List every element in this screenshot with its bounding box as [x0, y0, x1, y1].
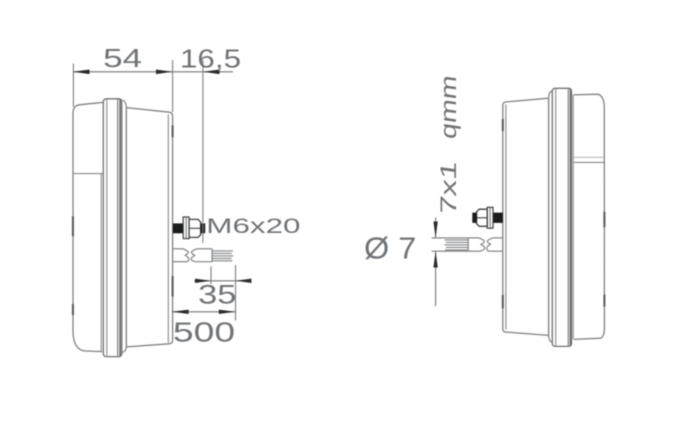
lens front tick lower (right view) — [603, 295, 605, 307]
bolt thread tip — [201, 223, 205, 233]
diameter extension line top — [432, 237, 469, 239]
svg-text:500: 500 — [173, 317, 235, 348]
arrow 54 right / 16,5 left — [156, 70, 173, 75]
arrow 16,5 right — [203, 70, 220, 75]
arrow diameter up — [433, 251, 437, 267]
lens inner edge — [100, 174, 102, 352]
cable jacket piece 1 — [173, 248, 183, 250]
bolt shank (left view) — [173, 223, 184, 233]
flange / gasket (left view) — [103, 99, 122, 357]
lens inner edge (right view) — [572, 95, 574, 339]
lamp lens outline (left view) — [73, 102, 103, 351]
housing wall inner line (right view) — [505, 104, 507, 329]
lens front tick upper (right view) — [603, 212, 605, 227]
arrow 35 right — [236, 279, 252, 283]
cable break symbol (right view, far) — [479, 238, 485, 251]
lens front tick upper — [72, 216, 74, 236]
housing wall tick upper — [172, 125, 174, 137]
svg-text:M6x20: M6x20 — [206, 215, 300, 238]
lens front tick lower — [72, 304, 74, 315]
cable jacket piece 2 — [197, 248, 212, 250]
svg-text:7x1: 7x1 — [436, 159, 461, 216]
bolt thread tip (right view) — [472, 213, 476, 223]
bolt shank (right view) — [492, 213, 503, 223]
arrow 54 left — [73, 70, 90, 75]
lamp lens outline (right view) — [573, 94, 604, 339]
lens seam line — [73, 173, 103, 175]
flange / gasket (right view) — [552, 88, 571, 346]
arrow 500 left — [172, 310, 189, 314]
svg-text:54: 54 — [103, 43, 142, 73]
bolt hex nut — [189, 219, 201, 237]
housing wall tick lower (right view) — [502, 295, 504, 308]
bolt washer — [183, 217, 189, 239]
dimension 54 / 16,5 line — [73, 71, 233, 73]
housing wall tick lower — [172, 276, 174, 297]
svg-text:35: 35 — [198, 280, 236, 310]
housing wall inner line — [167, 115, 169, 343]
lens seam (right view) — [573, 161, 604, 163]
diameter extension line bottom — [432, 250, 469, 252]
housing body (right view) — [548, 98, 550, 335]
svg-text:Ø 7: Ø 7 — [364, 232, 416, 266]
extension line left (lens front) — [72, 64, 74, 108]
stripped wires (right view) — [445, 239, 468, 241]
cable break symbol (right view, near) — [487, 238, 493, 251]
arrow 35 left — [195, 279, 211, 283]
svg-text:qmm: qmm — [436, 74, 461, 141]
diameter dim line lower — [435, 251, 437, 306]
dimension 35 — [194, 280, 251, 282]
diameter dim line upper — [435, 218, 437, 238]
housing wall tick upper (right view) — [502, 119, 504, 131]
extension line middle (housing back) — [172, 60, 174, 112]
svg-text:16,5: 16,5 — [180, 44, 241, 74]
cable jacket piece 1 (right view) — [493, 237, 503, 239]
extension line right (bolt tip) — [202, 60, 204, 243]
dimension 500 — [172, 311, 236, 313]
bolt washer (right view) — [487, 207, 493, 228]
stripped wires — [212, 250, 233, 252]
housing body (left view) — [125, 108, 127, 347]
arrow 500 right — [219, 310, 236, 314]
bolt hex nut (right view) — [477, 209, 488, 226]
arrow diameter down — [433, 222, 437, 238]
cable break symbol right — [191, 249, 197, 262]
cable break symbol left — [183, 249, 189, 262]
cable jacket piece 2 (right view) — [468, 237, 479, 239]
